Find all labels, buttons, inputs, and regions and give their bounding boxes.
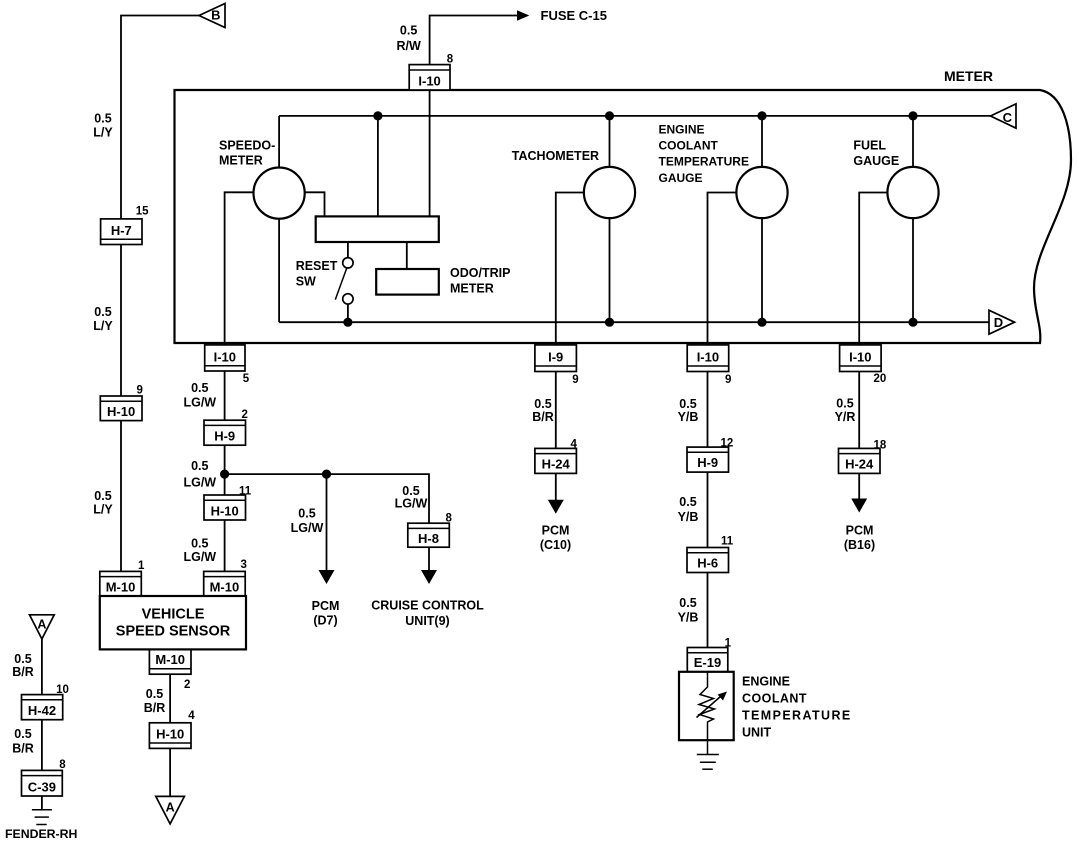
svg-text:ODO/TRIP: ODO/TRIP — [450, 266, 510, 280]
svg-text:SW: SW — [296, 274, 316, 288]
svg-text:Y/B: Y/B — [678, 611, 699, 625]
svg-text:H-7: H-7 — [111, 223, 132, 238]
svg-text:9: 9 — [137, 385, 143, 397]
svg-text:15: 15 — [136, 206, 149, 218]
svg-text:LG/W: LG/W — [183, 396, 216, 410]
svg-text:I-10: I-10 — [214, 350, 236, 365]
svg-text:L/Y: L/Y — [93, 126, 113, 140]
svg-text:8: 8 — [59, 759, 66, 771]
svg-text:FUSE C-15: FUSE C-15 — [541, 8, 607, 23]
svg-text:0.5: 0.5 — [191, 459, 208, 473]
svg-text:11: 11 — [721, 536, 734, 548]
svg-text:TEMPERATURE: TEMPERATURE — [742, 709, 852, 723]
svg-text:H-9: H-9 — [697, 455, 718, 470]
svg-text:H-24: H-24 — [542, 457, 571, 472]
svg-text:UNIT(9): UNIT(9) — [405, 614, 449, 628]
svg-text:0.5: 0.5 — [191, 381, 208, 395]
svg-text:PCM: PCM — [846, 524, 874, 538]
svg-text:TEMPERATURE: TEMPERATURE — [659, 155, 749, 169]
svg-text:H-10: H-10 — [211, 504, 239, 519]
svg-text:0.5: 0.5 — [14, 652, 31, 666]
svg-text:A: A — [37, 618, 46, 632]
svg-text:0.5: 0.5 — [94, 112, 111, 126]
svg-text:1: 1 — [725, 637, 732, 649]
svg-text:9: 9 — [725, 374, 731, 386]
svg-text:UNIT: UNIT — [742, 726, 772, 740]
svg-text:12: 12 — [721, 438, 734, 450]
svg-text:TACHOMETER: TACHOMETER — [512, 149, 599, 163]
svg-text:H-9: H-9 — [214, 429, 235, 444]
svg-text:4: 4 — [571, 439, 578, 451]
svg-text:1: 1 — [138, 560, 145, 572]
svg-text:LG/W: LG/W — [183, 550, 216, 564]
svg-text:H-10: H-10 — [107, 404, 135, 419]
svg-text:L/Y: L/Y — [93, 503, 113, 517]
svg-text:LG/W: LG/W — [395, 497, 428, 511]
svg-text:0.5: 0.5 — [402, 484, 419, 498]
svg-text:(D7): (D7) — [313, 614, 337, 628]
svg-text:ENGINE: ENGINE — [659, 123, 705, 137]
svg-text:M-10: M-10 — [210, 580, 240, 595]
svg-text:5: 5 — [243, 373, 250, 385]
svg-text:SPEED SENSOR: SPEED SENSOR — [116, 624, 231, 640]
svg-text:I-10: I-10 — [849, 350, 871, 365]
svg-text:METER: METER — [219, 154, 263, 168]
svg-text:H-8: H-8 — [418, 531, 439, 546]
svg-text:SPEEDO-: SPEEDO- — [219, 139, 275, 153]
svg-text:E-19: E-19 — [694, 655, 721, 670]
svg-text:18: 18 — [874, 439, 887, 451]
svg-text:RESET: RESET — [296, 259, 338, 273]
svg-text:0.5: 0.5 — [146, 687, 163, 701]
svg-text:0.5: 0.5 — [14, 727, 31, 741]
svg-text:0.5: 0.5 — [679, 495, 696, 509]
svg-text:H-24: H-24 — [845, 457, 874, 472]
svg-text:H-6: H-6 — [697, 556, 718, 571]
svg-text:H-42: H-42 — [28, 703, 56, 718]
svg-text:METER: METER — [944, 68, 993, 84]
svg-text:I-10: I-10 — [418, 73, 440, 88]
svg-text:METER: METER — [450, 282, 494, 296]
svg-text:M-10: M-10 — [106, 580, 136, 595]
svg-text:0.5: 0.5 — [836, 397, 853, 411]
svg-text:PCM: PCM — [542, 524, 570, 538]
svg-text:LG/W: LG/W — [183, 475, 216, 489]
svg-text:COOLANT: COOLANT — [742, 692, 807, 706]
svg-text:Y/R: Y/R — [835, 410, 856, 424]
svg-text:8: 8 — [447, 54, 454, 66]
svg-text:0.5: 0.5 — [94, 489, 111, 503]
svg-text:LG/W: LG/W — [291, 521, 324, 535]
svg-text:B/R: B/R — [12, 742, 34, 756]
svg-text:B: B — [211, 7, 220, 22]
svg-text:I-10: I-10 — [697, 350, 719, 365]
svg-text:4: 4 — [188, 710, 195, 722]
svg-text:10: 10 — [56, 684, 69, 696]
svg-text:Y/B: Y/B — [678, 410, 699, 424]
svg-text:(C10): (C10) — [540, 538, 571, 552]
svg-text:M-10: M-10 — [155, 652, 185, 667]
svg-text:C-39: C-39 — [28, 780, 56, 795]
svg-text:GAUGE: GAUGE — [853, 154, 899, 168]
svg-text:0.5: 0.5 — [191, 537, 208, 551]
svg-text:PCM: PCM — [312, 599, 340, 613]
svg-text:9: 9 — [572, 374, 578, 386]
svg-text:0.5: 0.5 — [679, 596, 696, 610]
svg-text:R/W: R/W — [396, 39, 421, 53]
svg-text:FUEL: FUEL — [853, 139, 886, 153]
svg-text:C: C — [1003, 110, 1013, 125]
svg-text:3: 3 — [241, 559, 247, 571]
svg-text:VEHICLE: VEHICLE — [142, 607, 205, 623]
svg-text:11: 11 — [239, 486, 252, 498]
svg-text:GAUGE: GAUGE — [659, 171, 703, 185]
svg-text:COOLANT: COOLANT — [659, 139, 719, 153]
svg-text:0.5: 0.5 — [534, 397, 551, 411]
svg-text:FENDER-RH: FENDER-RH — [5, 827, 78, 841]
svg-text:A: A — [166, 801, 175, 815]
svg-text:(B16): (B16) — [844, 538, 875, 552]
svg-text:I-9: I-9 — [548, 350, 563, 365]
svg-text:2: 2 — [242, 409, 248, 421]
svg-text:CRUISE CONTROL: CRUISE CONTROL — [371, 598, 484, 612]
svg-text:8: 8 — [446, 513, 453, 525]
svg-text:20: 20 — [874, 373, 887, 385]
svg-text:0.5: 0.5 — [679, 397, 696, 411]
svg-text:L/Y: L/Y — [93, 319, 113, 333]
svg-text:B/R: B/R — [144, 701, 166, 715]
svg-text:Y/B: Y/B — [678, 510, 699, 524]
svg-text:2: 2 — [184, 679, 190, 691]
svg-text:D: D — [994, 315, 1003, 330]
svg-text:ENGINE: ENGINE — [742, 675, 790, 689]
svg-text:H-10: H-10 — [156, 727, 184, 742]
svg-text:0.5: 0.5 — [298, 507, 315, 521]
svg-text:0.5: 0.5 — [400, 24, 417, 38]
svg-text:0.5: 0.5 — [94, 305, 111, 319]
svg-text:B/R: B/R — [12, 665, 34, 679]
svg-text:B/R: B/R — [532, 410, 554, 424]
